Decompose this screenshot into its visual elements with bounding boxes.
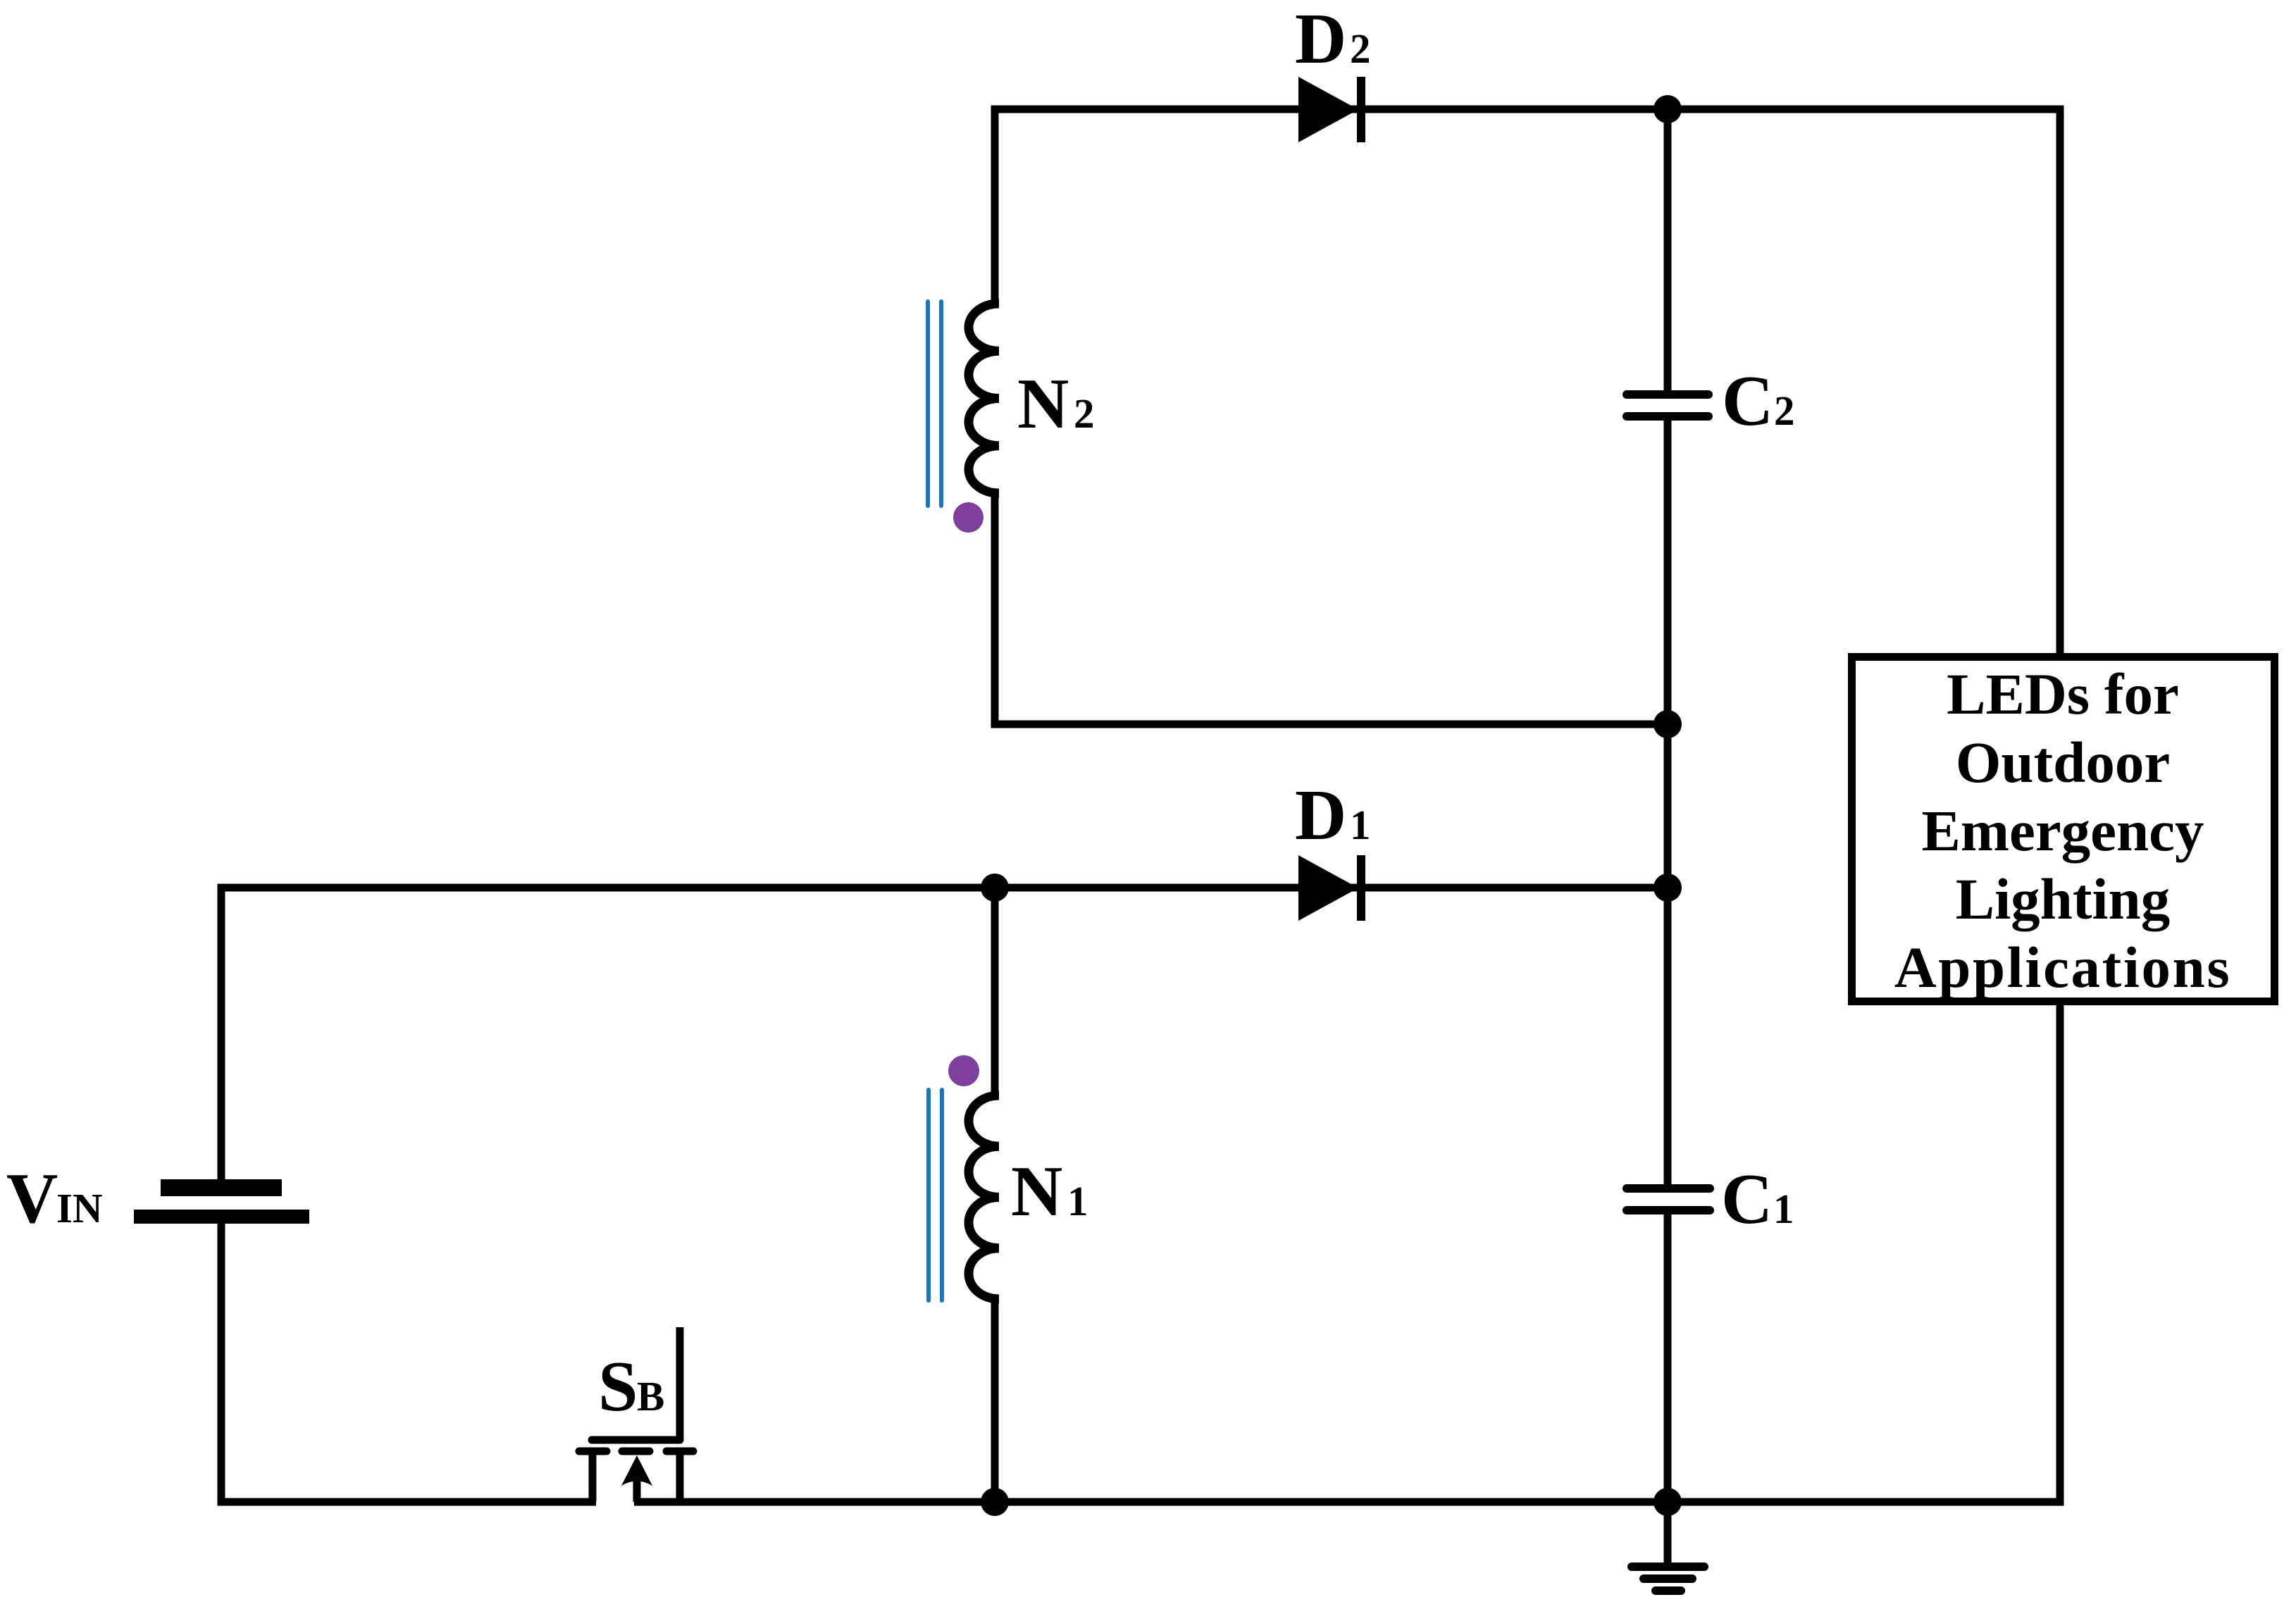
svg-text:N: N: [1011, 1152, 1062, 1231]
N2 polarity dot: [953, 502, 983, 533]
wire top rail from N2 top to top-right corner and down right side: [995, 109, 2060, 657]
wire N2 bottom to C2 bottom node: [995, 490, 1668, 724]
svg-text:C: C: [1721, 1160, 1773, 1238]
battery VIN bottom plate: [134, 1210, 309, 1224]
capacitor C1 wires: [1664, 888, 1672, 1184]
svg-text:1: 1: [1350, 802, 1371, 848]
wire N1 bottom: [991, 1296, 999, 1502]
N1 core lines (coupling): [926, 1090, 931, 1300]
wire box bottom to bottom rail and rail leftwards to MOSFET: [634, 1001, 2060, 1502]
N2 core lines (coupling): [926, 302, 930, 506]
MOSFET SB drain lead: [589, 1451, 597, 1502]
svg-text:D: D: [1295, 776, 1346, 855]
svg-text:2: 2: [1350, 25, 1371, 72]
MOSFET SB gate bar: [592, 1436, 680, 1444]
svg-text:V: V: [6, 1159, 58, 1238]
winding N1 stem top: [991, 888, 999, 1099]
svg-text:2: 2: [1774, 387, 1795, 434]
svg-text:1: 1: [1067, 1178, 1088, 1224]
MOSFET SB source lead: [676, 1451, 684, 1502]
MOSFET SB body arrow: [633, 1472, 641, 1502]
diode D1: [1298, 855, 1365, 921]
ground stub: [1664, 1502, 1672, 1563]
svg-text:IN: IN: [56, 1185, 103, 1231]
wire battery bottom to rail: [221, 1224, 596, 1502]
svg-text:2: 2: [1074, 390, 1095, 437]
capacitor C2 wires: [1664, 109, 1672, 390]
svg-text:S: S: [598, 1347, 638, 1426]
svg-text:1: 1: [1773, 1186, 1794, 1232]
diode D1 wire: [995, 884, 1668, 892]
capacitor C1 plates: [1627, 1184, 1710, 1193]
MOSFET SB channel segments: [579, 1448, 607, 1455]
battery VIN top plate: [161, 1179, 282, 1196]
wire C2 bottom node to D1 right node: [1664, 724, 1672, 888]
svg-text:Emergency: Emergency: [1921, 798, 2204, 863]
load box LEDs: [1852, 657, 2275, 1002]
svg-text:Lighting: Lighting: [1956, 866, 2170, 931]
svg-text:D: D: [1295, 0, 1346, 78]
wire left horizontal from battery top, down left side: [221, 888, 995, 1179]
node junction top of C2: [1653, 95, 1682, 123]
capacitor C2 plates: [1627, 390, 1708, 399]
N1 polarity dot: [948, 1055, 979, 1086]
diode D2: [1298, 77, 1365, 142]
node junction D1 left / N1 top: [981, 874, 1009, 902]
svg-text:LEDs for: LEDs for: [1947, 661, 2179, 726]
node junction ground: [1653, 1488, 1682, 1516]
node junction D1 right: [1653, 874, 1682, 902]
svg-text:Outdoor: Outdoor: [1956, 730, 2170, 795]
ground bars: [1632, 1563, 1704, 1571]
svg-text:C: C: [1722, 361, 1773, 440]
inductor N1 coil: [969, 1095, 999, 1299]
node junction N1 bottom: [981, 1488, 1009, 1516]
node junction N2/C2 bottom: [1653, 710, 1682, 738]
svg-text:B: B: [637, 1373, 664, 1419]
inductor N2 coil: [969, 304, 999, 493]
transformer winding N2 stem top: [991, 106, 999, 307]
MOSFET SB gate lead: [676, 1327, 684, 1440]
svg-text:N: N: [1017, 364, 1069, 443]
svg-text:Applications: Applications: [1894, 935, 2232, 1000]
